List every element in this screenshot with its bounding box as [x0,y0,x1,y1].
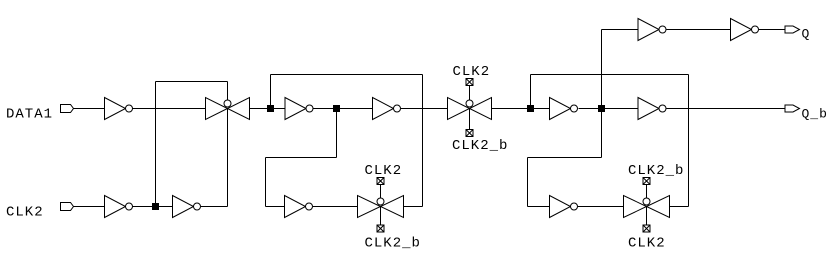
svg-text:Q_b: Q_b [802,107,828,122]
svg-text:CLK2: CLK2 [453,64,491,80]
svg-text:CLK2_b: CLK2_b [628,163,684,179]
svg-text:Q: Q [802,27,811,42]
svg-text:CLK2: CLK2 [6,205,44,221]
svg-text:CLK2: CLK2 [628,236,666,252]
svg-text:CLK2: CLK2 [365,163,403,179]
svg-text:DATA1: DATA1 [6,107,53,123]
svg-text:CLK2_b: CLK2_b [452,138,508,154]
svg-text:CLK2_b: CLK2_b [365,236,421,252]
